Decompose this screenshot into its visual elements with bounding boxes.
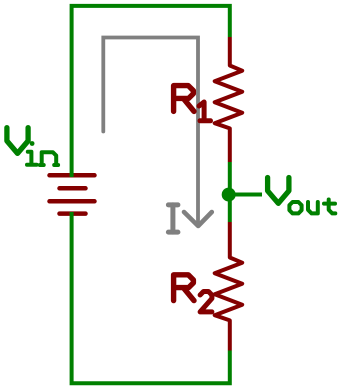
current arrow head [184,212,212,226]
wire: R1 bottom through node to R2 top (green) [228,162,232,222]
battery cell line 4 (short, -) [60,211,86,216]
label Vout [268,178,336,214]
resistor R2 [215,222,243,351]
battery cell line 1 (long, +) [50,173,95,178]
battery cell line 3 (long, +) [50,199,95,204]
battery cell line 2 (short, -) [60,186,86,191]
resistor R1 [215,37,243,162]
current label I [168,205,178,232]
label Vin [7,128,58,165]
label R1 [174,86,211,121]
label R2 [174,275,212,312]
wire: R2 bottom to battery minus (green) [72,212,230,383]
node A (junction dot) [222,188,236,202]
wire: top loop Vin+ to R1 (green) [72,6,230,177]
current loop (gray) [103,38,198,224]
wire: node to Vout stub (green) [230,193,262,197]
